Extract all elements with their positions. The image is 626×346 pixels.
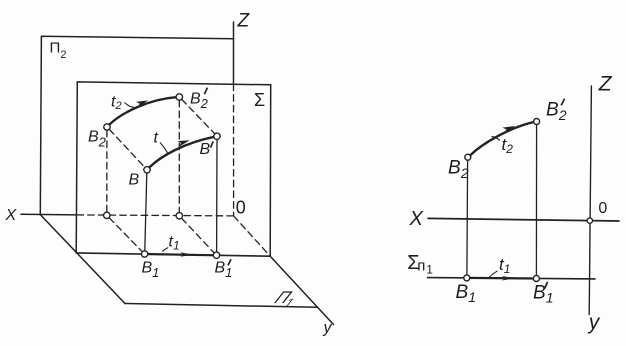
- leader of t label (left): [160, 143, 168, 155]
- svg-text:B2: B2: [88, 129, 107, 150]
- trajectory t2 curve (right): [470, 122, 533, 155]
- connection line X-axis point to B1' (dashed): [182, 218, 215, 253]
- svg-text:t2: t2: [111, 94, 122, 113]
- connection line X-axis point to B1 (dashed): [109, 218, 142, 252]
- svg-text:1: 1: [426, 263, 433, 277]
- leader of t1 label (left): [162, 248, 168, 252]
- plane П1 bottom edge: [125, 304, 317, 308]
- svg-text:t1: t1: [499, 255, 510, 276]
- leader of t2 label (right): [492, 137, 501, 141]
- point B1: [141, 251, 147, 257]
- svg-text:п: п: [417, 257, 425, 274]
- point B2: [104, 124, 110, 130]
- axis y hidden behind Σ (dashed): [234, 216, 271, 256]
- svg-text:t1: t1: [169, 234, 180, 253]
- svg-text:y: y: [323, 320, 333, 337]
- svg-text:B1: B1: [533, 282, 553, 305]
- svg-text:B1: B1: [456, 282, 476, 305]
- svg-text:B: B: [200, 141, 211, 158]
- svg-text:0: 0: [598, 200, 607, 217]
- arrowhead of t1 (right): [502, 276, 514, 280]
- point Bx' under B2': [176, 213, 182, 219]
- point O origin (right): [587, 218, 592, 223]
- point B2' (right): [534, 119, 540, 125]
- svg-text:Z: Z: [598, 73, 613, 96]
- svg-text:y: y: [587, 311, 601, 334]
- connection line B2 to X-axis point (dashed): [106, 130, 108, 212]
- point B1 (right): [464, 275, 470, 281]
- svg-text:Z: Z: [237, 11, 251, 32]
- trajectory t1 segment with emphasis: [145, 254, 217, 255]
- point B2': [176, 94, 182, 100]
- axis X solid segment: [21, 213, 77, 216]
- connection line B2 to B1 (right): [466, 160, 469, 274]
- leader of t1 label (right): [489, 271, 498, 278]
- trajectory t2 curve (left): [109, 97, 176, 124]
- point B1' (right): [533, 276, 539, 282]
- svg-text:B1: B1: [142, 260, 160, 281]
- point Bx under B2: [104, 212, 110, 218]
- svg-text:t: t: [154, 130, 159, 147]
- line B1-B1' (trace of Σ on П1): [76, 253, 270, 256]
- svg-text:0: 0: [236, 198, 246, 218]
- svg-text:B: B: [129, 172, 140, 189]
- trajectory t curve (left): [150, 137, 215, 167]
- plane П2 outline (left+top edges): [40, 36, 233, 214]
- svg-text:X: X: [409, 208, 424, 230]
- svg-text:X: X: [5, 207, 18, 224]
- svg-text:Σ: Σ: [254, 90, 265, 110]
- point B: [144, 167, 150, 173]
- arrowhead of t2 (left): [136, 98, 149, 108]
- connection line B2 to B (dashed): [109, 129, 145, 167]
- axis Z hidden behind Σ (dashed): [233, 84, 235, 216]
- arrowhead of t2 (right): [502, 123, 516, 133]
- svg-text:t2: t2: [502, 135, 514, 156]
- connection line B2' to B' (dashed): [182, 99, 215, 134]
- svg-text:B2: B2: [448, 157, 469, 181]
- arrowhead of t (left): [177, 137, 190, 146]
- leader of t2 label (left): [125, 103, 135, 108]
- axis Z-y vertical (right): [589, 86, 591, 315]
- point B1': [213, 252, 219, 258]
- axis y solid segment / right edge of П1: [270, 256, 333, 324]
- axis X (right): [428, 218, 619, 221]
- svg-text:Π2: Π2: [50, 40, 67, 62]
- plane П1 left edge: [40, 215, 125, 304]
- connection line B2' to B1' (right): [535, 125, 537, 276]
- axis Z solid segment above Σ: [233, 22, 235, 84]
- axis X hidden behind Σ (dashed): [77, 215, 234, 216]
- connection line B to B1: [145, 173, 147, 251]
- connection line B' to B1': [216, 140, 218, 253]
- trajectory t1 segment (right): [467, 277, 537, 280]
- point B2 (right): [465, 154, 471, 160]
- svg-text:B2: B2: [546, 100, 567, 124]
- arrowhead of t1 (left): [180, 252, 192, 257]
- connection line B2' to X-axis point (dashed): [178, 100, 180, 212]
- svg-text:B2: B2: [190, 91, 209, 112]
- point B': [214, 133, 220, 139]
- plane Σ rectangle: [76, 82, 271, 256]
- trace line Σп1 (right): [428, 278, 596, 279]
